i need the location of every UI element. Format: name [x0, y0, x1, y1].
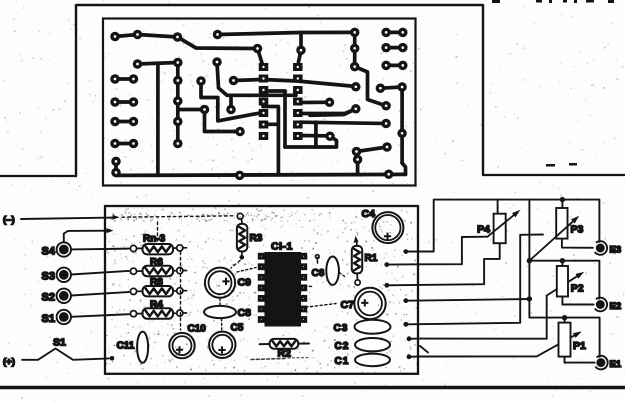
node w1: [403, 249, 418, 254]
wire S2 to R8: [71, 292, 129, 296]
wire VC vertical: [529, 200, 599, 357]
pad 6: [133, 59, 143, 69]
label C7: [341, 299, 355, 311]
wire S4 to Rn-3: [71, 248, 129, 251]
dashed C9 bottom: [219, 299, 221, 306]
svg-text:P4: P4: [477, 224, 490, 236]
wire L6 stub to V278: [266, 122, 278, 126]
wire pad357 stub to rail: [356, 161, 360, 174]
pad 28: [296, 45, 306, 55]
node w2: [384, 262, 418, 267]
cropped text remnants top right: [492, 0, 614, 3]
wire top row pads 1-3: [115, 35, 178, 38]
label P2: [571, 283, 584, 295]
page rule left segment: [0, 175, 77, 177]
pad 33: [350, 28, 360, 38]
dashed trace right of resistors: [180, 252, 182, 330]
pad 27: [111, 168, 121, 178]
wire S4 top branch: [64, 228, 114, 241]
capacitor C5: [209, 332, 235, 358]
wire pad12 to L2 square: [234, 80, 262, 81]
wire (+) with switch S1 bump: [22, 349, 114, 361]
capacitor C4: [372, 212, 403, 243]
P4 wiper arrow: [488, 210, 521, 237]
node P2 top: [560, 258, 565, 266]
R1 top lead: [354, 236, 359, 246]
IC footprint pad R4: [293, 98, 303, 106]
wire pad15 to chain: [178, 108, 205, 112]
svg-text:R1: R1: [365, 253, 378, 264]
svg-text:(–): (–): [3, 215, 15, 226]
capacitor C10: [169, 333, 194, 358]
label C3: [334, 323, 349, 334]
svg-text:R3: R3: [250, 233, 263, 244]
label C8: [238, 307, 252, 319]
pad 2: [133, 30, 143, 40]
wire pair tr1: [386, 31, 403, 35]
pad 44: [381, 101, 391, 111]
potentiometer P3: [556, 208, 567, 239]
capacitor C9: [205, 268, 235, 298]
wire bottom rail: [116, 174, 406, 175]
svg-text:P2: P2: [571, 283, 584, 295]
wire pad5 stub to IC square L1: [258, 49, 263, 64]
pad 12: [196, 76, 206, 86]
pad 30: [325, 131, 335, 141]
svg-text:C3: C3: [334, 323, 349, 334]
wire P1 bottom to E1: [565, 357, 595, 363]
pad 1: [110, 32, 120, 42]
pad 4: [213, 30, 223, 40]
pad 11: [173, 76, 183, 86]
dashed C6 to R1: [340, 273, 347, 278]
potentiometer P4: [494, 214, 506, 244]
pad 22: [110, 139, 120, 149]
dashed trace above Rn-3: [157, 222, 159, 242]
svg-text:C4: C4: [362, 208, 376, 220]
R3 bottom lead: [240, 251, 245, 259]
stray dashes right margin: [546, 163, 577, 201]
R3 top lead: [237, 213, 243, 223]
wire w4 to node VC: [418, 299, 530, 301]
dashed trace (-) row to R3: [122, 216, 234, 217]
terminal E1: [595, 356, 607, 370]
label S1 switch: [53, 337, 66, 349]
label S3: [42, 271, 55, 283]
pad 50: [235, 171, 245, 181]
IC footprint pad R6: [293, 121, 303, 129]
label R3: [250, 233, 263, 244]
pad 20: [129, 117, 139, 127]
svg-text:C6: C6: [312, 268, 325, 279]
wire pads 6-7: [138, 63, 178, 65]
IC footprint pad L7: [259, 132, 269, 140]
wire long vertical left: [156, 64, 160, 175]
label C4: [362, 208, 376, 220]
pad 15: [129, 97, 139, 107]
svg-text:C10: C10: [188, 324, 207, 335]
wire pair tr2: [386, 46, 403, 50]
wire w2 to P4 wiper: [418, 237, 488, 265]
IC footprint pad L5: [259, 109, 269, 117]
pad 47: [352, 147, 362, 157]
pad 32: [351, 104, 361, 114]
wire S3 to R6: [71, 271, 129, 275]
wire S1 to R4: [71, 314, 129, 317]
lead curls Rn-3: [130, 245, 186, 252]
wire branch to pad 301,50: [299, 33, 303, 51]
wire V285 riser to L3: [263, 91, 285, 147]
svg-text:C2: C2: [335, 341, 350, 352]
P3 wiper arrow: [529, 216, 579, 261]
resistor R3: [237, 224, 247, 252]
IC footprint pad R1: [293, 63, 303, 71]
resistor R8: [143, 286, 174, 296]
wire pad 301,50 to IC square R1: [299, 50, 302, 62]
pad 48: [382, 142, 392, 152]
switch S4: [57, 242, 71, 256]
terminal E3: [595, 241, 607, 255]
svg-text:S1: S1: [53, 337, 66, 349]
svg-text:S2: S2: [42, 292, 55, 304]
pad 43: [397, 82, 407, 92]
resistor R1: [352, 246, 362, 274]
wire right chain jog to pad386: [355, 67, 386, 106]
wire w6 to P2 wiper: [418, 272, 584, 339]
IC footprint pad R7: [293, 132, 303, 140]
label R8: [150, 277, 163, 288]
wire pad15 down to pad19: [205, 110, 241, 132]
svg-text:C8: C8: [238, 307, 252, 319]
pad 17: [200, 105, 210, 115]
wire w5 riser VB: [418, 235, 543, 325]
label C2: [335, 341, 350, 352]
pad 36: [381, 28, 391, 38]
dashed C8 to C5: [221, 319, 223, 331]
wire P2 rail: [529, 261, 599, 299]
IC footprint pad L2: [259, 75, 269, 83]
pad 40: [381, 61, 391, 71]
label R1: [365, 253, 378, 264]
figure outer frame right edge: [482, 4, 484, 175]
svg-text:R4: R4: [150, 300, 163, 311]
pad 41: [398, 61, 408, 71]
label R2: [278, 348, 292, 360]
svg-text:C9: C9: [238, 277, 252, 289]
wire diag pair bottom: [357, 147, 388, 152]
pad 51: [384, 169, 394, 179]
svg-text:S3: S3: [42, 271, 55, 283]
pad 42: [376, 83, 386, 93]
wire w7 to P1 wiper: [418, 331, 582, 356]
R2 leads: [260, 343, 310, 346]
wire R6sq long horizontal to pad 386: [300, 122, 386, 123]
wire pad380-402 pair: [380, 87, 402, 88]
capacitor C8: [204, 306, 236, 318]
svg-text:E3: E3: [610, 245, 622, 256]
wire P3 bottom to E3: [562, 239, 593, 248]
label E1: [610, 359, 622, 370]
pad 16: [173, 96, 183, 106]
wire R4sq to pad 329: [300, 100, 325, 104]
pad 23: [129, 139, 139, 149]
lead curls R4: [130, 310, 186, 317]
wire w3 to P4 bottom: [418, 243, 500, 285]
dashed C9 to IC: [237, 268, 256, 273]
component board outline: [105, 206, 418, 374]
IC footprint pad L3: [259, 86, 269, 94]
IC footprint pad R3: [293, 86, 303, 94]
label C11: [117, 341, 135, 352]
label S2: [42, 292, 55, 304]
capacitor C3: [355, 320, 391, 334]
pad 49: [353, 155, 363, 165]
node w3: [384, 283, 418, 288]
svg-text:E1: E1: [610, 359, 622, 370]
figure outer frame left edge: [75, 4, 77, 176]
svg-text:C7: C7: [341, 299, 355, 311]
wire rail right riser: [402, 163, 405, 174]
wire pair row1 left: [115, 77, 134, 81]
wire chain x178: [176, 63, 180, 144]
pad 19: [110, 117, 120, 127]
pad 10: [129, 74, 139, 84]
pad 35: [350, 62, 360, 72]
pad 37: [398, 28, 408, 38]
switch S2: [57, 289, 71, 303]
label P4: [477, 224, 490, 236]
wire right long vertical: [400, 87, 404, 163]
wire w1 top rail: [418, 200, 600, 252]
wire pad330 jog to y147 bus: [285, 136, 337, 147]
label (+): [3, 357, 15, 368]
pad 31: [351, 82, 361, 92]
IC footprint pad L4: [259, 98, 269, 106]
IC footprint pad R5: [293, 109, 303, 117]
label R4: [150, 300, 163, 311]
label (-): [3, 215, 15, 226]
wire bottom-left pads to rail: [114, 161, 118, 172]
wire P2 bottom to E2: [562, 297, 593, 305]
pad 9: [110, 74, 120, 84]
potentiometer P1: [559, 323, 571, 357]
label CI-1: [271, 241, 293, 253]
page rule right segment: [482, 174, 625, 176]
label P1: [573, 340, 586, 352]
wire (-) input: [21, 215, 120, 220]
svg-text:R8: R8: [150, 277, 163, 288]
pad 3: [173, 32, 183, 42]
speckle under R2: [251, 358, 308, 360]
node P3 top: [560, 197, 565, 208]
svg-text:CI-1: CI-1: [271, 241, 293, 253]
wire P4 top stub: [497, 200, 499, 214]
capacitor C7: [354, 288, 385, 319]
wire pad3 to pad5: [178, 37, 258, 49]
potentiometer P2: [557, 266, 568, 297]
stray tick near board edge: [420, 346, 428, 353]
svg-text:Rn-3: Rn-3: [143, 234, 166, 245]
svg-text:S4: S4: [42, 246, 56, 258]
label C5: [231, 323, 244, 334]
C6 top lead curl: [316, 255, 320, 263]
pad 26: [111, 157, 121, 167]
wire pad11 jog stair to L5 square: [201, 81, 261, 121]
capacitor C2: [355, 338, 390, 351]
label C1: [335, 356, 350, 367]
node P1 top: [562, 315, 567, 323]
node w4: [403, 298, 418, 303]
node VC-b: [527, 296, 532, 301]
wire pair row4 left: [115, 142, 134, 146]
pad 18: [226, 105, 236, 115]
IC CI-1: [259, 252, 307, 327]
IC footprint pad L1: [259, 63, 269, 71]
wire R5sq s-curve to pad 355: [300, 109, 356, 114]
switch S1: [57, 310, 71, 324]
pad 25: [235, 127, 245, 137]
wire R7sq to pad330: [301, 134, 325, 138]
node VC-a: [527, 258, 532, 263]
pad 24: [173, 139, 183, 149]
node w6: [407, 336, 418, 341]
label S4: [42, 246, 56, 258]
wire right chain top: [353, 32, 357, 66]
page bottom thick rule: [0, 386, 625, 390]
svg-text:S1: S1: [42, 313, 55, 325]
pad 45: [381, 119, 391, 129]
R1 bottom lead: [355, 274, 360, 286]
dashed C6 to IC pins: [300, 285, 314, 288]
switch S3: [57, 268, 71, 282]
figure outer frame top edge: [76, 4, 483, 7]
label R6: [150, 257, 163, 268]
pad 39: [398, 43, 408, 53]
resistor R4: [143, 308, 174, 318]
wire T branch x316: [314, 122, 318, 147]
wire pair tr3: [386, 64, 403, 68]
pad 29: [325, 98, 335, 108]
svg-text:P3: P3: [571, 224, 584, 236]
svg-text:E2: E2: [610, 301, 622, 312]
capacitor C6: [326, 257, 339, 285]
wire pair row2 left: [115, 100, 134, 104]
pad 14: [110, 97, 120, 107]
dashed R3 to C9: [231, 261, 240, 269]
pad 8: [212, 57, 222, 67]
label C9: [238, 277, 252, 289]
terminal E2: [595, 298, 607, 312]
pad 21: [173, 117, 183, 127]
svg-text:R6: R6: [150, 257, 163, 268]
node w7: [407, 354, 418, 359]
wire pad8 stair to R3 square: [217, 62, 296, 95]
pad 7: [173, 58, 183, 68]
label E3: [610, 245, 622, 256]
pad 38: [381, 43, 391, 53]
wire L4 to center vertical: [263, 107, 278, 175]
pad 46: [397, 129, 407, 139]
label Rn-3: [143, 234, 166, 245]
dashed IC to C7: [301, 304, 336, 308]
label P3: [571, 224, 584, 236]
label S1: [42, 313, 55, 325]
svg-text:C5: C5: [231, 323, 244, 334]
svg-text:C1: C1: [335, 356, 350, 367]
wire pad355 curve left: [310, 109, 356, 116]
IC footprint pad L6: [259, 121, 269, 129]
wire pad16 stub: [229, 95, 233, 109]
svg-text:P1: P1: [573, 340, 586, 352]
wire pair row3 left: [115, 120, 134, 124]
capacitor C1: [355, 354, 390, 367]
resistor R2: [270, 339, 299, 349]
IC footprint pad R2: [293, 75, 303, 83]
pad 13: [229, 76, 239, 86]
resistor R6: [143, 266, 174, 276]
PCB board frame: [103, 19, 416, 186]
pad 5: [253, 44, 263, 54]
lead curls R8: [130, 288, 186, 295]
label E2: [610, 301, 622, 312]
label C6: [312, 268, 325, 279]
capacitor C11: [137, 332, 148, 363]
svg-text:(+): (+): [3, 357, 15, 368]
wire pad4 long top trace: [218, 32, 355, 34]
pad 34: [350, 44, 360, 54]
resistor Rn-3: [143, 244, 174, 254]
svg-text:C11: C11: [117, 341, 135, 352]
label C10: [188, 324, 207, 335]
node w5: [403, 322, 418, 327]
wire L2 through R2 square to pad 355: [263, 80, 356, 87]
lead curls R6: [130, 268, 186, 275]
